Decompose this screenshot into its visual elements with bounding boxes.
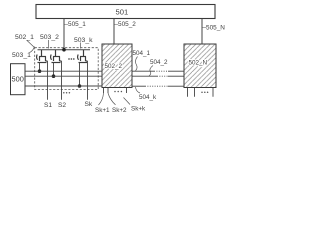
transistor 503_1 (Q1): [37, 50, 48, 63]
leader Sk+k: [124, 98, 131, 105]
svg-text:504_k: 504_k: [139, 94, 157, 101]
junction dot Qk gate on 504_k: [78, 84, 82, 88]
svg-text:502_N: 502_N: [189, 60, 208, 67]
svg-text:–505_N: –505_N: [203, 24, 226, 31]
top distribution wire: [38, 49, 91, 51]
transistor 503_k (Qk): [78, 50, 88, 63]
drain wire Qk to Sk: [87, 61, 89, 100]
control line 504_k (wire, left section): [25, 85, 102, 87]
transistor 503_2 (Q2): [51, 50, 62, 63]
svg-text:500: 500: [12, 74, 24, 83]
leader 504_k: [136, 87, 141, 93]
control line 504_k (wire, right section): [132, 85, 145, 87]
leader 503_k: [80, 43, 82, 49]
svg-text:S1: S1: [44, 102, 52, 109]
svg-text:504_2: 504_2: [150, 59, 168, 66]
wire 505_N: [201, 19, 203, 45]
leader 502_1: [27, 41, 35, 48]
drain wire Q1 to S1: [47, 61, 49, 100]
control block 500: [11, 64, 26, 95]
demultiplexer block 502_2 (hatched): [102, 44, 132, 88]
svg-text:Sk: Sk: [85, 101, 93, 108]
leader 504_1: [135, 57, 137, 71]
pin under 502_2 (2): [107, 88, 109, 94]
svg-text:Sk+k: Sk+k: [131, 106, 146, 113]
pin under 502_N (1): [187, 88, 189, 97]
pin under 502_2 (3): [126, 88, 128, 94]
svg-text:502_2: 502_2: [105, 63, 123, 70]
leader Sk+2: [108, 93, 116, 105]
svg-text:S2: S2: [58, 102, 66, 109]
leader 503_1: [30, 47, 35, 53]
ellipsis between S2 and Sk pins: [63, 92, 70, 94]
demultiplexer dashed box 502_1: [35, 48, 98, 90]
wire 505_2: [113, 19, 115, 45]
control line 504_2 (wire): [25, 75, 157, 77]
pin under 502_N (3): [212, 88, 214, 97]
junction dot Q1 gate on 504_1: [38, 69, 42, 73]
leader 503_2: [48, 40, 50, 49]
drain wire Q2 to S2: [61, 61, 63, 100]
leader 504_2: [149, 66, 153, 76]
junction dot Q2 gate on 504_2: [52, 74, 56, 78]
svg-text:–505_2: –505_2: [115, 21, 137, 28]
pin under 502_2 (1): [103, 88, 105, 94]
svg-text:–505_1: –505_1: [65, 21, 87, 28]
ellipsis under 502_N: [201, 92, 208, 94]
svg-text:501: 501: [116, 7, 129, 16]
gate wire Q1: [39, 63, 41, 72]
svg-text:503_2: 503_2: [40, 34, 59, 41]
ellipsis between Q2 and Qk: [68, 58, 75, 60]
driver block 501: [36, 5, 215, 19]
svg-text:Sk+1: Sk+1: [95, 107, 110, 114]
control line 504_1 (wire): [25, 70, 154, 72]
gate wire Q2: [53, 63, 55, 77]
svg-text:502_1: 502_1: [15, 34, 34, 41]
svg-text:504_1: 504_1: [133, 50, 151, 57]
svg-text:503_1: 503_1: [12, 52, 31, 59]
leader Sk+1: [99, 93, 104, 105]
gate wire Qk: [79, 63, 81, 87]
demultiplexer block 502_N (hatched): [184, 44, 216, 88]
ellipsis under 502_2: [114, 91, 122, 93]
pin under 502_N (2): [194, 88, 196, 97]
svg-text:Sk+2: Sk+2: [112, 107, 127, 114]
junction dot 505_1/top wire: [62, 48, 66, 52]
svg-text:503_k: 503_k: [74, 37, 93, 44]
wire 505_1: [63, 19, 65, 51]
